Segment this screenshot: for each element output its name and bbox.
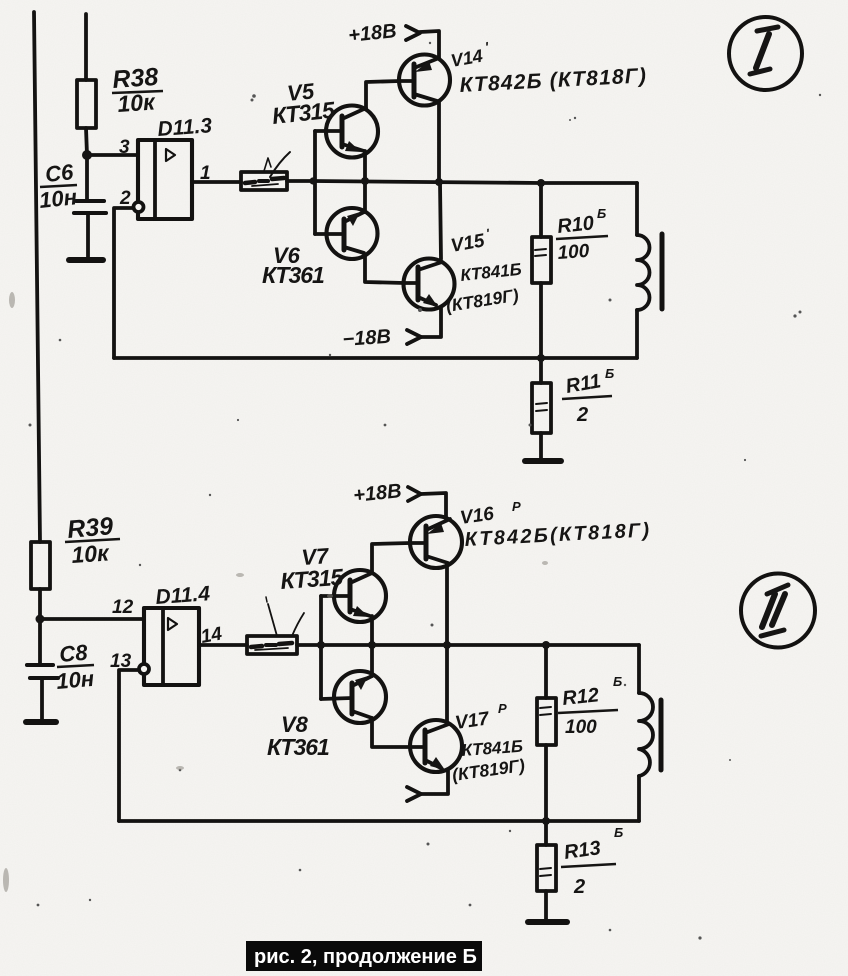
svg-text:100: 100	[557, 241, 591, 264]
svg-text:Б: Б	[597, 206, 606, 221]
svg-text:10к: 10к	[117, 88, 157, 117]
svg-text:14: 14	[199, 623, 224, 647]
svg-text:10к: 10к	[71, 539, 111, 568]
svg-text:1: 1	[200, 163, 211, 184]
svg-text:−18В: −18В	[342, 326, 392, 351]
svg-text:КТ361: КТ361	[262, 262, 324, 288]
svg-text:R12: R12	[561, 684, 600, 710]
svg-text:КТ361: КТ361	[267, 734, 329, 760]
svg-text:2: 2	[573, 876, 585, 898]
svg-text:3: 3	[119, 137, 130, 158]
svg-text:рис. 2, продолжение Б: рис. 2, продолжение Б	[254, 946, 477, 968]
svg-text:Р: Р	[512, 499, 521, 514]
svg-text:Б: Б	[605, 366, 614, 381]
svg-text:R10: R10	[556, 212, 595, 238]
svg-text:12: 12	[112, 597, 134, 618]
svg-text:С6: С6	[44, 159, 75, 187]
svg-text:КТ315: КТ315	[280, 564, 346, 594]
svg-text:D11.3: D11.3	[157, 114, 213, 141]
svg-text:С8: С8	[58, 640, 89, 667]
svg-text:2: 2	[119, 188, 131, 209]
svg-text:Р: Р	[498, 701, 507, 716]
svg-text:13: 13	[110, 651, 132, 672]
svg-text:10н: 10н	[38, 184, 78, 213]
svg-text:Б: Б	[613, 674, 622, 689]
svg-text:100: 100	[565, 717, 597, 738]
svg-text:2: 2	[576, 404, 588, 426]
svg-text:10н: 10н	[55, 666, 95, 694]
svg-text:Б: Б	[614, 825, 623, 840]
svg-text:D11.4: D11.4	[155, 582, 211, 609]
